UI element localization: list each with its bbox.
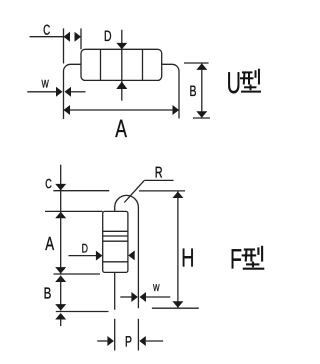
leader line R underline (F) [144,179,173,181]
dimension H line (F) [177,191,179,308]
arrow C right (U) [75,32,82,42]
arrow H bottom (F) [172,301,183,308]
baseline extension (F B) [56,311,109,313]
dimension D line (U) [121,30,123,101]
dimension A line (U) [64,109,180,111]
arrow C top (F) [55,184,66,191]
svg-text:W: W [42,79,50,91]
extension line bend-top level (F C) [53,190,109,192]
dimension W tail line (U) [71,91,86,93]
arrow D top (U) [116,43,127,49]
extension line body-bottom (F) [54,273,101,275]
svg-text:H: H [181,242,194,272]
arrow W left-pointing (F) [140,292,147,302]
bottom lead (F) [114,272,116,309]
band line right (U body) [142,50,144,81]
dimension W line (U) [27,91,56,93]
leader diagonal R (F) [124,180,144,202]
svg-text:W: W [153,283,160,294]
extension line P right (F) [137,319,139,351]
dimension W line (F) [120,296,131,298]
dimension W tail (F) [146,296,170,298]
band line 2 (F body) [103,235,128,237]
arrow D right-pointing (F) [96,251,103,261]
left lead (U) [64,64,82,119]
extension line top (U B) [184,62,209,64]
extension line P left (F) [114,319,116,351]
dimension B line (F) [60,276,62,311]
arrow B bottom (F) [55,304,66,311]
extension line body edge (U C) [80,28,82,49]
arrow B top (F) [55,276,66,283]
arrow P right-pointing (F) [107,336,114,346]
arrow W right-pointing (U) [56,87,63,97]
tail below baseline (F) [60,320,62,327]
band line left (U body) [100,50,102,81]
dimension P left line (F) [97,340,107,342]
band line 1 (F body) [103,230,128,232]
right lead (U) [162,64,179,118]
arrow C left (U) [64,32,71,42]
arrow below baseline (F) [55,313,66,320]
extension line body-top (F) [45,210,103,212]
arrow A right (U) [173,105,180,115]
svg-text:C: C [45,176,52,191]
arrow A bottom (F) [55,267,66,274]
left dim column tail above C (F) [60,165,62,191]
arrow H top (F) [172,192,183,199]
svg-text:C: C [43,21,50,37]
svg-text:R: R [155,165,163,182]
svg-text:B: B [190,83,197,100]
dimension P right line (F) [146,340,163,342]
arrow B bottom (U) [196,111,207,118]
extension line H top (F) [139,190,185,192]
svg-text:P: P [125,334,132,351]
arrow B top (U) [196,63,207,70]
svg-text:A: A [45,234,54,255]
arrow D left-pointing (F) [128,250,135,260]
svg-text:F: F [230,243,242,274]
arrow A left (U) [64,105,71,115]
dim line across C span (F) [60,191,62,212]
arrow P left-pointing (F) [139,336,146,346]
extension line lead (U C) [63,28,65,63]
dimension B line (U) [201,63,203,118]
svg-text:U: U [227,67,241,100]
resistor body U-type [81,49,162,80]
top lead bend and return lead (F) [115,195,139,308]
arrow W right-pointing (F) [131,292,138,302]
dimension A line (F) [60,212,62,274]
band line 3 (F body) [103,240,128,242]
arrow W left-pointing (U) [65,87,72,97]
svg-text:B: B [44,285,52,302]
arrow C bottom / A top (F) [55,212,66,219]
arrow D bottom (U) [116,82,127,90]
svg-text:D: D [82,241,88,255]
hanzi 型 of U-type [240,69,261,92]
band line 4 (F body) [103,261,128,263]
dimension D line (F) [69,255,97,257]
svg-text:D: D [104,28,112,45]
extension line H bottom (F) [152,307,199,309]
extension line bottom (U B) [193,117,210,119]
resistor body F-type [103,211,128,272]
dimension C line (U) [30,36,64,38]
hanzi 型 of F-type [242,246,265,269]
svg-text:A: A [115,115,127,143]
